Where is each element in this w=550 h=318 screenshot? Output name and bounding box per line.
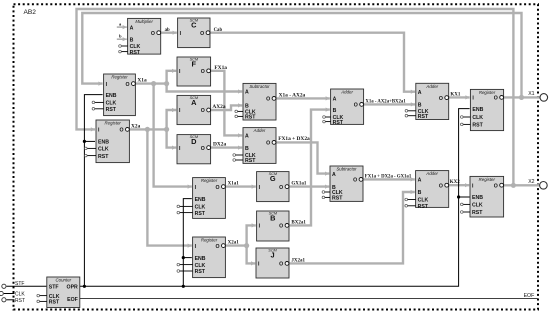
input port RST (2, 298, 15, 302)
svg-text:JX2a1: JX2a1 (291, 259, 305, 264)
register X1a1 CLK stub (177, 205, 193, 208)
svg-text:A: A (418, 178, 422, 184)
svg-text:Register: Register (201, 178, 218, 183)
svg-text:CLK: CLK (472, 115, 483, 121)
svg-text:A: A (130, 25, 134, 31)
register X2 RST stub (461, 211, 471, 214)
counter CLK stub (37, 294, 47, 297)
multiplier (128, 18, 161, 55)
svg-text:RST: RST (472, 210, 483, 216)
wire X2 feedback loop to register X2a input (77, 9, 514, 185)
svg-text:Adder: Adder (425, 84, 438, 89)
junction X2a1 branches (244, 243, 249, 248)
svg-text:CLK: CLK (195, 205, 206, 211)
svg-text:X1a - AX2a: X1a - AX2a (279, 92, 306, 98)
svg-text:X1a: X1a (137, 78, 147, 84)
svg-text:RST: RST (98, 154, 109, 160)
multiplier RST stub (119, 50, 128, 53)
register X2a (96, 120, 129, 163)
svg-text:CLK: CLK (98, 147, 109, 153)
wire X2a1 branch down into SCM J input (247, 246, 256, 266)
input b stub into multiplier B (117, 37, 127, 41)
svg-text:O: O (151, 31, 155, 37)
svg-text:O: O (120, 128, 124, 134)
svg-text:O: O (439, 183, 443, 189)
register X2 CLK stub (461, 203, 471, 206)
wire X1a branch down to register X1a1 input (154, 84, 192, 189)
counter RST stub (37, 300, 47, 303)
svg-text:B: B (418, 103, 422, 109)
junction X1a to X1a1 register (151, 81, 156, 86)
adder middle RST stub (323, 120, 331, 123)
svg-text:O: O (279, 185, 283, 191)
junction X2a to X2a1 register (145, 127, 150, 132)
junction ENB register X2 (457, 195, 460, 198)
adder FX1a+DX2a CLK stub (233, 154, 243, 157)
svg-text:ENB: ENB (195, 256, 206, 262)
svg-text:O: O (494, 183, 498, 189)
adder KX2 RST stub (405, 205, 416, 208)
svg-text:A: A (191, 98, 197, 107)
wire X2a branch down to register X2a1 input (147, 129, 191, 247)
svg-text:O: O (279, 262, 283, 268)
wire ENB middle chain to registers X1a1 X2a1 (183, 199, 192, 287)
svg-text:RST: RST (195, 269, 206, 275)
register X1a1 RST stub (177, 211, 193, 214)
wire ab from multiplier to SCM C (161, 31, 177, 35)
wire ENB tap to register X2 (459, 196, 470, 198)
svg-text:CLK: CLK (418, 198, 429, 204)
svg-text:RST: RST (472, 123, 483, 129)
svg-text:A: A (418, 90, 422, 96)
wire AX2a from SCM A to subtractor B input (210, 103, 242, 110)
svg-text:O: O (201, 146, 205, 152)
svg-text:CLK: CLK (15, 292, 25, 298)
svg-text:FX1a + DX2a: FX1a + DX2a (278, 136, 310, 142)
svg-text:X2a1: X2a1 (228, 241, 240, 246)
SCM G (257, 172, 289, 202)
svg-text:CLK: CLK (195, 263, 206, 269)
svg-text:FX1a: FX1a (214, 65, 227, 71)
svg-text:Register: Register (479, 177, 496, 182)
svg-text:J: J (270, 251, 274, 260)
junction ENB register X2a1 (182, 256, 185, 259)
register X2a1 RST stub (177, 270, 193, 273)
svg-text:RST: RST (49, 300, 60, 306)
register X1 CLK stub (461, 116, 471, 119)
output port X1 (540, 94, 548, 102)
adder KX1 (416, 83, 449, 120)
register X2a1 CLK stub (177, 263, 193, 266)
svg-text:AB2: AB2 (24, 9, 37, 16)
SCM D (177, 135, 211, 164)
junction X2a branches (164, 127, 169, 132)
counter (47, 277, 80, 308)
wire ENB left chain from counter OPR to registers X1a X2a (84, 95, 102, 287)
wire OPR from counter along bottom up to registers X1 X2 ENB (80, 109, 470, 287)
svg-text:Adder: Adder (425, 171, 438, 176)
svg-text:RST: RST (418, 114, 429, 120)
register X1a RST stub (92, 108, 104, 111)
svg-text:X1a - AX2a+BX2a1: X1a - AX2a+BX2a1 (365, 99, 406, 104)
svg-text:EOF: EOF (524, 293, 535, 299)
svg-text:ENB: ENB (472, 107, 483, 113)
svg-text:A: A (332, 172, 336, 178)
svg-text:O: O (126, 82, 130, 88)
register X2a CLK stub (85, 147, 97, 150)
wire X2a from register X2a (129, 128, 167, 130)
svg-text:RST: RST (130, 50, 141, 56)
svg-text:KX1: KX1 (450, 92, 461, 97)
wire X1a from register X1a (135, 82, 167, 84)
svg-text:O: O (201, 108, 205, 114)
svg-text:A: A (245, 90, 249, 96)
wire JX2a1 from SCM J up to adder B input (289, 190, 415, 264)
svg-text:X1a1: X1a1 (228, 182, 240, 187)
svg-text:STF: STF (49, 285, 59, 291)
svg-text:EOF: EOF (67, 297, 78, 303)
svg-text:ENB: ENB (472, 195, 483, 201)
svg-text:Multiplier: Multiplier (135, 19, 153, 24)
wire KX2 from adder to register X2 input (448, 183, 469, 187)
SCM B (257, 211, 289, 241)
subtractor X1a-AX2a (243, 83, 276, 120)
wire X1a branch up into SCM F input (167, 69, 177, 84)
junction X2 feedback (511, 183, 516, 188)
svg-text:B: B (245, 146, 249, 152)
svg-text:O: O (354, 103, 358, 109)
svg-text:O: O (279, 224, 283, 230)
svg-text:STF: STF (15, 281, 24, 287)
wire FX1a + DX2a to subtractor A input (276, 142, 330, 175)
svg-text:G: G (270, 174, 276, 183)
svg-text:Adder: Adder (253, 128, 266, 133)
svg-text:RST: RST (245, 158, 256, 164)
subtractor RST stub (235, 115, 243, 118)
adder KX1 CLK stub (405, 110, 416, 113)
wire KX1 from adder to register X1 input (448, 95, 469, 99)
svg-text:ENB: ENB (195, 197, 206, 203)
svg-text:O: O (266, 141, 270, 147)
svg-text:O: O (216, 185, 220, 191)
adder KX1 RST stub (405, 114, 416, 117)
adder FX1a+DX2a (243, 128, 276, 165)
svg-text:O: O (439, 96, 443, 102)
svg-text:Counter: Counter (55, 278, 71, 283)
wire X1a1 from register X1a1 to SCM G (225, 185, 256, 189)
input port CLK (0, 291, 14, 295)
svg-text:BX2a1: BX2a1 (291, 220, 306, 225)
svg-text:RST: RST (418, 204, 429, 210)
register X2a RST stub (85, 154, 97, 157)
svg-text:O: O (266, 97, 270, 103)
adder KX2 (416, 171, 449, 210)
wire X2a1 branch up into SCM B input (247, 223, 256, 245)
svg-text:D: D (191, 137, 197, 146)
register X2a1 (193, 237, 226, 278)
svg-text:B: B (270, 214, 275, 223)
subtractor2 CLK stub (322, 191, 330, 194)
wire FX1a + DX2a - GX1a1 to adder A input (363, 177, 415, 181)
wire X1 feedback loop to register X1a input (82, 13, 521, 97)
svg-text:X1: X1 (528, 91, 534, 97)
SCM C (178, 18, 210, 48)
junction X1a branches (164, 81, 169, 86)
svg-text:Register: Register (111, 75, 128, 80)
input port STF (2, 284, 47, 288)
adder KX2 CLK stub (405, 198, 416, 201)
svg-text:B: B (418, 190, 422, 196)
wire EOF from counter to border (80, 298, 538, 300)
svg-text:Cab: Cab (214, 28, 223, 33)
register X1 RST stub (461, 123, 471, 126)
svg-text:X2a: X2a (131, 123, 141, 129)
wire X2a branch up into SCM A input (167, 108, 177, 129)
svg-text:Register: Register (479, 90, 496, 95)
register X2 (470, 176, 504, 217)
subtractor2 RST stub (322, 196, 330, 199)
register X1a1 (193, 178, 226, 219)
svg-text:OPR: OPR (67, 285, 78, 291)
wire X2 from register to output port (503, 184, 540, 186)
wire X1 from register to output port (503, 96, 541, 98)
svg-text:b: b (119, 34, 122, 39)
svg-text:A: A (333, 97, 337, 103)
output port X2 (540, 182, 548, 190)
svg-text:C: C (191, 21, 197, 30)
svg-text:RST: RST (195, 211, 206, 217)
svg-text:Adder: Adder (340, 90, 353, 95)
wire FX1a from SCM F to adder A input (210, 71, 242, 138)
svg-text:CLK: CLK (106, 101, 117, 107)
svg-text:AX2a: AX2a (212, 104, 225, 110)
subtractor CLK stub (235, 110, 243, 113)
svg-text:ab: ab (165, 28, 170, 33)
svg-text:Subtractor: Subtractor (249, 84, 270, 89)
svg-text:B: B (130, 37, 134, 43)
register X1a (104, 74, 136, 116)
register X1a CLK stub (92, 101, 104, 104)
svg-text:X2: X2 (528, 179, 534, 185)
register X1 (470, 89, 503, 130)
SCM J (256, 248, 289, 278)
multiplier CLK stub (119, 45, 128, 48)
svg-text:CLK: CLK (472, 203, 483, 209)
subtractor FX1a+DX2a-GX1a1 (330, 166, 363, 202)
svg-text:RST: RST (106, 107, 117, 113)
svg-text:O: O (200, 31, 204, 37)
junction ENB middle on OPR line (182, 285, 185, 288)
svg-text:Subtractor: Subtractor (336, 167, 357, 172)
adder X1a-AX2a+BX2a1 (331, 89, 364, 126)
svg-text:GX1a1: GX1a1 (291, 182, 307, 187)
svg-text:RST: RST (332, 196, 343, 202)
svg-text:RST: RST (245, 115, 256, 121)
wire ENB tap to register X2a1 (183, 257, 192, 259)
svg-text:DX2a: DX2a (213, 142, 226, 148)
svg-text:ENB: ENB (98, 140, 109, 146)
svg-text:Register: Register (201, 238, 218, 243)
wire Cab from SCM C to adder A input (210, 33, 415, 94)
wire X1a branch down into subtractor A input (167, 84, 243, 94)
wire ENB tap to register X2a (84, 140, 95, 142)
wire X1a - AX2a from subtractor to adder A (276, 96, 330, 100)
wire X2a1 from register X2a1 (225, 244, 247, 246)
svg-text:Register: Register (105, 121, 122, 126)
svg-text:O: O (494, 96, 498, 102)
svg-text:O: O (201, 69, 205, 75)
wire X1a - AX2a+BX2a1 to adder B input (363, 102, 415, 106)
svg-text:RST: RST (333, 120, 344, 126)
adder middle CLK stub (323, 116, 331, 119)
svg-text:ENB: ENB (106, 93, 117, 99)
SCM F (177, 57, 211, 86)
junction ENB register X2a (83, 140, 86, 143)
svg-text:O: O (216, 244, 220, 250)
svg-text:B: B (333, 108, 337, 114)
wire X2a branch down into SCM D input (167, 129, 177, 149)
adder FX1a+DX2a RST stub (233, 159, 243, 162)
wire BX2a1 from SCM B up to adder B input (289, 108, 330, 226)
wire DX2a from SCM D to adder B input (210, 146, 242, 150)
svg-text:F: F (192, 60, 197, 69)
SCM A (177, 95, 211, 124)
svg-text:A: A (245, 134, 249, 140)
svg-text:FX1a + DX2a - GX1a1: FX1a + DX2a - GX1a1 (365, 174, 412, 179)
junction ENB left on OPR line (83, 285, 86, 288)
input a stub into multiplier A (117, 25, 127, 29)
junction X1 feedback (519, 95, 524, 100)
svg-text:O: O (353, 178, 357, 184)
svg-text:RST: RST (15, 298, 25, 304)
wire GX1a1 from SCM G to subtractor B input (289, 185, 330, 189)
